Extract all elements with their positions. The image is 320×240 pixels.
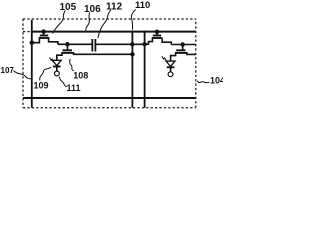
- svg-text:110: 110: [135, 0, 150, 11]
- svg-text:111: 111: [67, 83, 81, 93]
- svg-text:105: 105: [60, 2, 77, 13]
- svg-text:112: 112: [106, 2, 123, 13]
- svg-text:106: 106: [84, 4, 101, 15]
- svg-text:107: 107: [1, 66, 15, 75]
- svg-text:109: 109: [34, 81, 49, 91]
- svg-text:104: 104: [210, 76, 223, 86]
- svg-text:108: 108: [73, 70, 88, 80]
